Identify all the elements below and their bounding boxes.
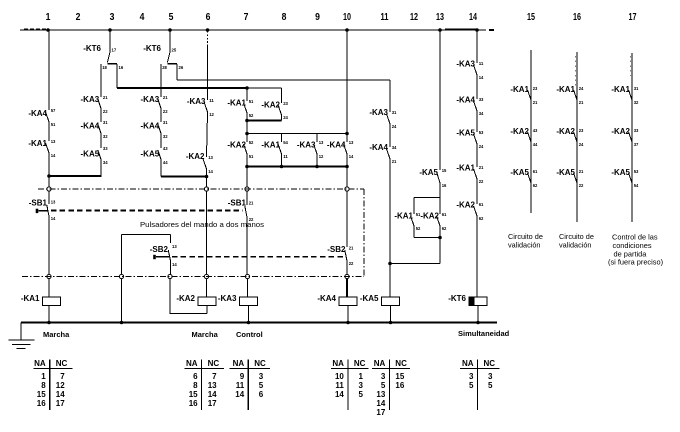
svg-text:16: 16 xyxy=(442,183,447,189)
svg-text:validación: validación xyxy=(559,241,591,250)
svg-text:-KA2: -KA2 xyxy=(227,141,246,150)
svg-text:22: 22 xyxy=(103,109,108,115)
svg-text:-KA1: -KA1 xyxy=(556,85,575,94)
svg-text:-KA3: -KA3 xyxy=(187,97,206,106)
svg-text:14: 14 xyxy=(51,216,56,222)
svg-text:43: 43 xyxy=(163,146,168,152)
svg-text:NA: NA xyxy=(186,359,198,368)
svg-text:4: 4 xyxy=(140,12,145,23)
svg-text:3: 3 xyxy=(488,372,493,381)
svg-text:22: 22 xyxy=(249,217,254,223)
svg-text:13: 13 xyxy=(51,199,56,205)
svg-text:21: 21 xyxy=(579,169,584,175)
svg-text:26: 26 xyxy=(179,65,184,71)
svg-text:12: 12 xyxy=(410,12,418,23)
svg-text:NA: NA xyxy=(34,359,46,368)
svg-text:24: 24 xyxy=(283,115,288,121)
svg-text:-SB1: -SB1 xyxy=(228,199,247,208)
svg-text:-KA4: -KA4 xyxy=(456,96,475,105)
svg-text:9: 9 xyxy=(315,12,320,23)
svg-text:13: 13 xyxy=(319,140,324,146)
svg-text:-SB2: -SB2 xyxy=(150,245,169,254)
svg-text:11: 11 xyxy=(335,381,344,390)
svg-text:13: 13 xyxy=(172,244,177,250)
svg-text:-KT6: -KT6 xyxy=(83,44,101,53)
svg-text:7: 7 xyxy=(212,372,217,381)
svg-text:14: 14 xyxy=(469,12,477,23)
svg-text:-KA2: -KA2 xyxy=(556,127,575,136)
svg-text:-KA1: -KA1 xyxy=(611,85,630,94)
svg-text:28: 28 xyxy=(162,65,167,71)
svg-text:-KA4: -KA4 xyxy=(327,141,346,150)
svg-text:13: 13 xyxy=(376,390,385,399)
svg-text:12: 12 xyxy=(209,112,214,118)
svg-text:-KA5: -KA5 xyxy=(611,168,630,177)
svg-text:1: 1 xyxy=(46,12,51,23)
svg-text:-KA5: -KA5 xyxy=(419,168,438,177)
svg-text:1: 1 xyxy=(41,372,46,381)
svg-text:62: 62 xyxy=(442,226,447,232)
svg-text:-KA5: -KA5 xyxy=(81,150,100,159)
svg-text:21: 21 xyxy=(103,95,108,101)
svg-text:NA: NA xyxy=(233,359,245,368)
svg-text:54: 54 xyxy=(283,140,288,146)
svg-text:13: 13 xyxy=(208,155,213,161)
svg-text:14: 14 xyxy=(172,262,177,268)
svg-text:10: 10 xyxy=(335,372,344,381)
svg-text:22: 22 xyxy=(163,109,168,115)
svg-text:23: 23 xyxy=(533,86,538,92)
svg-text:22: 22 xyxy=(349,261,354,267)
svg-text:NC: NC xyxy=(208,359,220,368)
svg-text:-SB1: -SB1 xyxy=(29,199,48,208)
svg-text:61: 61 xyxy=(479,202,484,208)
svg-text:Pulsadores del mando a dos man: Pulsadores del mando a dos manos xyxy=(140,220,264,229)
svg-text:Marcha: Marcha xyxy=(192,330,219,339)
svg-text:11: 11 xyxy=(209,98,214,104)
svg-text:(si fuera preciso): (si fuera preciso) xyxy=(608,258,663,267)
svg-text:5: 5 xyxy=(169,12,174,23)
svg-text:8: 8 xyxy=(193,381,198,390)
svg-text:31: 31 xyxy=(103,120,108,126)
svg-text:13: 13 xyxy=(436,12,444,23)
svg-text:13: 13 xyxy=(51,139,56,145)
svg-text:13: 13 xyxy=(349,140,354,146)
svg-text:13: 13 xyxy=(208,381,217,390)
svg-text:-KA5: -KA5 xyxy=(141,150,160,159)
svg-text:51: 51 xyxy=(51,122,56,128)
svg-text:NC: NC xyxy=(484,359,496,368)
svg-text:61: 61 xyxy=(533,169,538,175)
svg-text:-KA4: -KA4 xyxy=(317,294,336,303)
svg-text:43: 43 xyxy=(533,128,538,134)
svg-text:52: 52 xyxy=(249,140,254,146)
svg-text:23: 23 xyxy=(579,128,584,134)
svg-text:10: 10 xyxy=(343,12,351,23)
svg-text:17: 17 xyxy=(56,399,65,408)
svg-text:2: 2 xyxy=(76,12,81,23)
svg-text:-KA3: -KA3 xyxy=(81,95,100,104)
svg-text:-KA1: -KA1 xyxy=(28,139,47,148)
svg-text:-KT6: -KT6 xyxy=(143,44,161,53)
svg-text:Marcha: Marcha xyxy=(43,330,70,339)
svg-text:51: 51 xyxy=(249,154,254,160)
svg-text:-KA3: -KA3 xyxy=(369,108,388,117)
svg-text:21: 21 xyxy=(392,159,397,165)
svg-text:57: 57 xyxy=(51,108,56,114)
svg-text:51: 51 xyxy=(249,99,254,105)
svg-text:NC: NC xyxy=(56,359,68,368)
svg-text:-KA4: -KA4 xyxy=(81,122,100,131)
svg-text:-KT6: -KT6 xyxy=(448,294,466,303)
svg-text:21: 21 xyxy=(163,95,168,101)
svg-text:-SB2: -SB2 xyxy=(327,245,346,254)
svg-text:31: 31 xyxy=(163,120,168,126)
svg-text:6: 6 xyxy=(259,390,264,399)
svg-text:31: 31 xyxy=(392,110,397,116)
svg-text:15: 15 xyxy=(189,390,198,399)
svg-text:16: 16 xyxy=(573,12,581,23)
svg-text:-KA1: -KA1 xyxy=(227,99,246,108)
svg-text:-KA3: -KA3 xyxy=(141,95,160,104)
svg-text:-KA2: -KA2 xyxy=(456,201,475,210)
svg-text:44: 44 xyxy=(533,142,538,148)
svg-text:Control: Control xyxy=(236,330,263,339)
svg-text:14: 14 xyxy=(376,399,385,408)
svg-text:6: 6 xyxy=(193,372,198,381)
svg-text:21: 21 xyxy=(579,100,584,106)
svg-text:14: 14 xyxy=(349,154,354,160)
svg-text:32: 32 xyxy=(634,100,639,106)
svg-text:5: 5 xyxy=(381,381,386,390)
svg-text:17: 17 xyxy=(629,12,637,23)
svg-text:14: 14 xyxy=(51,153,56,159)
svg-text:37: 37 xyxy=(634,142,639,148)
svg-text:21: 21 xyxy=(533,100,538,106)
svg-text:3: 3 xyxy=(358,381,363,390)
svg-text:22: 22 xyxy=(579,183,584,189)
svg-text:-KA1: -KA1 xyxy=(510,85,529,94)
svg-text:1: 1 xyxy=(358,372,363,381)
svg-text:-KA2: -KA2 xyxy=(420,212,439,221)
svg-text:34: 34 xyxy=(103,160,108,166)
svg-text:62: 62 xyxy=(533,183,538,189)
svg-text:-KA3: -KA3 xyxy=(297,141,316,150)
svg-text:14: 14 xyxy=(208,390,217,399)
svg-text:21: 21 xyxy=(479,165,484,171)
svg-text:-KA5: -KA5 xyxy=(456,129,475,138)
svg-text:15: 15 xyxy=(442,168,447,174)
svg-text:16: 16 xyxy=(395,381,404,390)
svg-text:34: 34 xyxy=(479,111,484,117)
svg-text:-KA4: -KA4 xyxy=(28,109,47,118)
svg-text:-KA1: -KA1 xyxy=(261,141,280,150)
svg-text:52: 52 xyxy=(416,226,421,232)
svg-text:NC: NC xyxy=(354,359,366,368)
svg-text:24: 24 xyxy=(392,124,397,130)
svg-text:12: 12 xyxy=(56,381,65,390)
svg-text:validación: validación xyxy=(508,241,540,250)
svg-text:24: 24 xyxy=(479,144,484,150)
svg-text:17: 17 xyxy=(208,399,217,408)
svg-text:14: 14 xyxy=(56,390,65,399)
svg-text:-KA5: -KA5 xyxy=(360,294,379,303)
svg-text:34: 34 xyxy=(392,145,397,151)
svg-text:18: 18 xyxy=(102,65,107,71)
svg-text:52: 52 xyxy=(249,113,254,119)
svg-text:14: 14 xyxy=(235,390,244,399)
svg-text:24: 24 xyxy=(579,86,584,92)
svg-text:11: 11 xyxy=(479,61,484,67)
svg-text:14: 14 xyxy=(335,390,344,399)
svg-text:21: 21 xyxy=(249,200,254,206)
svg-text:53: 53 xyxy=(479,130,484,136)
svg-text:11: 11 xyxy=(283,154,288,160)
svg-text:12: 12 xyxy=(319,154,324,160)
svg-text:-KA1: -KA1 xyxy=(456,164,475,173)
svg-text:-KA4: -KA4 xyxy=(369,143,388,152)
svg-text:24: 24 xyxy=(579,142,584,148)
svg-text:25: 25 xyxy=(172,48,177,54)
svg-text:62: 62 xyxy=(479,216,484,222)
svg-text:33: 33 xyxy=(103,146,108,152)
svg-text:11: 11 xyxy=(236,381,245,390)
svg-text:14: 14 xyxy=(208,169,213,175)
svg-text:3: 3 xyxy=(259,372,264,381)
svg-text:17: 17 xyxy=(112,48,117,54)
svg-text:-KA5: -KA5 xyxy=(556,168,575,177)
svg-text:16: 16 xyxy=(37,399,46,408)
svg-text:-KA2: -KA2 xyxy=(510,127,529,136)
svg-text:5: 5 xyxy=(488,381,493,390)
svg-text:-KA1: -KA1 xyxy=(394,212,413,221)
svg-text:15: 15 xyxy=(37,390,46,399)
svg-text:53: 53 xyxy=(634,169,639,175)
svg-text:NA: NA xyxy=(462,359,474,368)
svg-text:3: 3 xyxy=(381,372,386,381)
svg-text:-KA1: -KA1 xyxy=(21,294,40,303)
svg-text:-KA2: -KA2 xyxy=(186,152,205,161)
svg-text:8: 8 xyxy=(282,12,287,23)
svg-text:33: 33 xyxy=(479,97,484,103)
svg-text:33: 33 xyxy=(634,128,639,134)
svg-text:7: 7 xyxy=(60,372,65,381)
svg-text:NC: NC xyxy=(395,359,407,368)
svg-text:NA: NA xyxy=(374,359,386,368)
svg-text:-KA4: -KA4 xyxy=(141,122,160,131)
svg-text:5: 5 xyxy=(259,381,264,390)
svg-text:6: 6 xyxy=(206,12,211,23)
svg-text:Simultaneidad: Simultaneidad xyxy=(458,329,510,338)
svg-text:16: 16 xyxy=(189,399,198,408)
svg-text:-KA5: -KA5 xyxy=(510,168,529,177)
svg-text:11: 11 xyxy=(381,12,389,23)
svg-text:31: 31 xyxy=(634,86,639,92)
svg-text:15: 15 xyxy=(395,372,404,381)
svg-text:3: 3 xyxy=(469,372,474,381)
svg-text:3: 3 xyxy=(110,12,115,23)
svg-text:-KA2: -KA2 xyxy=(611,127,630,136)
svg-text:-KA3: -KA3 xyxy=(456,60,475,69)
svg-text:-KA3: -KA3 xyxy=(218,294,237,303)
svg-text:61: 61 xyxy=(442,212,447,218)
svg-text:16: 16 xyxy=(119,65,124,71)
svg-text:17: 17 xyxy=(376,408,385,417)
svg-text:5: 5 xyxy=(469,381,474,390)
svg-text:22: 22 xyxy=(479,179,484,185)
svg-text:54: 54 xyxy=(634,183,639,189)
svg-text:7: 7 xyxy=(244,12,249,23)
svg-text:15: 15 xyxy=(527,12,535,23)
svg-text:23: 23 xyxy=(283,101,288,107)
svg-text:44: 44 xyxy=(163,160,168,166)
svg-text:21: 21 xyxy=(349,245,354,251)
svg-text:-KA2: -KA2 xyxy=(176,294,195,303)
svg-text:8: 8 xyxy=(41,381,46,390)
svg-text:5: 5 xyxy=(358,390,363,399)
svg-text:NC: NC xyxy=(254,359,266,368)
svg-text:9: 9 xyxy=(240,372,245,381)
svg-text:-KA2: -KA2 xyxy=(261,101,280,110)
svg-text:NA: NA xyxy=(332,359,344,368)
svg-text:14: 14 xyxy=(479,75,484,81)
svg-text:32: 32 xyxy=(163,134,168,140)
svg-text:32: 32 xyxy=(103,134,108,140)
